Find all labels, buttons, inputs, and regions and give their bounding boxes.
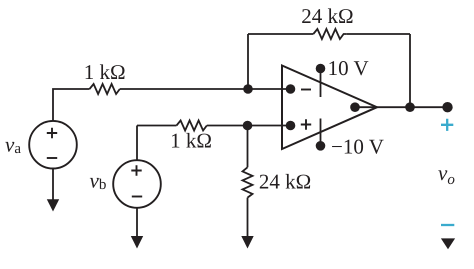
wire va bottom lead — [52, 169, 54, 200]
terminal dot output — [442, 102, 452, 112]
wire vb top lead — [136, 126, 138, 161]
wire inverting rail to op-amp — [120, 88, 291, 90]
pin dot positive supply — [316, 64, 326, 74]
op-amp positive supply pin — [320, 69, 322, 98]
op-amp noninverting input label + — [301, 119, 311, 129]
output reference arrow — [441, 238, 455, 249]
wire 24k shunt upper lead — [247, 126, 249, 168]
source vb minus mark — [132, 196, 142, 198]
junction dot feedback/output — [405, 102, 415, 112]
svg-text:va: va — [5, 133, 21, 157]
wire feedback top left — [248, 33, 313, 35]
wire noninverting rail left — [137, 125, 177, 127]
svg-text:10 V: 10 V — [328, 56, 369, 80]
wire va top lead and inverting rail left corner — [53, 89, 90, 121]
output plus sign (cyan) — [441, 119, 453, 131]
source va minus mark — [47, 157, 57, 159]
wire feedback riser — [247, 34, 249, 89]
source va plus mark — [47, 128, 57, 138]
op-amp inverting input label - — [301, 89, 311, 91]
junction dot inverting node — [243, 84, 253, 94]
resistor R3 1 kOhm (noninverting input) — [177, 121, 207, 131]
pin dot inverting input — [286, 84, 296, 94]
wire output to terminal — [377, 106, 448, 108]
wire vb bottom lead — [136, 208, 138, 236]
source vb plus mark — [131, 165, 141, 175]
output minus sign (cyan) — [441, 224, 454, 226]
svg-text:−10 V: −10 V — [331, 135, 384, 159]
ground arrow below va — [47, 199, 59, 211]
op-amp output pin lead — [355, 106, 377, 108]
pin dot output — [350, 102, 360, 112]
ground arrow below 24k shunt — [241, 236, 253, 249]
source va circle — [29, 121, 77, 169]
op-amp U1 triangle — [282, 66, 377, 150]
source vb circle — [113, 160, 161, 208]
svg-text:vb: vb — [90, 169, 107, 193]
svg-text:24 kΩ: 24 kΩ — [301, 4, 353, 28]
svg-text:24 kΩ: 24 kΩ — [259, 170, 311, 194]
op-amp negative supply pin — [320, 119, 322, 146]
resistor R2 24 kOhm (feedback) — [313, 29, 346, 39]
wire feedback top right — [346, 33, 410, 35]
svg-text:vo: vo — [438, 161, 455, 188]
wire feedback drop to output — [409, 34, 411, 107]
resistor R4 24 kOhm (shunt to ground) — [243, 167, 253, 197]
svg-text:1 kΩ: 1 kΩ — [84, 60, 126, 84]
wire noninverting rail to op-amp — [207, 125, 291, 127]
pin dot negative supply — [316, 141, 326, 151]
ground arrow below vb — [131, 236, 143, 249]
wire 24k shunt lower lead — [247, 198, 249, 236]
junction dot noninverting node — [243, 121, 253, 131]
pin dot noninverting input — [286, 121, 296, 131]
resistor R1 1 kOhm (inverting input) — [90, 84, 120, 94]
svg-text:1 kΩ: 1 kΩ — [170, 128, 212, 152]
